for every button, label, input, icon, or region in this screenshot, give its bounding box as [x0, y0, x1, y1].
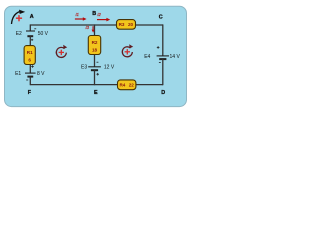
svg-text:R3: R3 [119, 22, 125, 27]
svg-text:E1: E1 [15, 71, 21, 77]
plus sign of E4 [157, 46, 160, 49]
svg-text:B: B [92, 11, 96, 17]
svg-text:E: E [94, 90, 98, 96]
plus sign of E1 [31, 65, 34, 68]
plus sign of E3 [96, 73, 99, 76]
resistor R4 [118, 80, 136, 90]
svg-text:22: 22 [129, 83, 135, 88]
svg-text:D: D [161, 90, 165, 96]
battery E1 [25, 73, 36, 77]
minus sign of E2 [34, 28, 36, 30]
wire E1 to F [29, 77, 31, 86]
svg-text:I1: I1 [76, 12, 79, 17]
svg-text:14 V: 14 V [170, 54, 181, 60]
battery E2 [26, 31, 35, 36]
current arrow I1 [75, 17, 87, 21]
svg-text:R2: R2 [92, 40, 98, 45]
svg-text:E3: E3 [81, 65, 87, 71]
reference rotation arrow top-left [12, 10, 26, 24]
current arrow I3 [92, 26, 95, 32]
wire left branch A to E2 [29, 24, 31, 31]
svg-text:E2: E2 [16, 31, 22, 37]
wire R1 to E1 [29, 65, 31, 73]
svg-text:E4: E4 [144, 54, 150, 60]
svg-text:6: 6 [28, 58, 31, 63]
resistor R1 [24, 46, 35, 65]
wire right branch C to E4 [162, 24, 164, 55]
svg-text:R4: R4 [119, 83, 125, 88]
wire middle branch B to R2 [94, 24, 96, 36]
svg-text:12 V: 12 V [104, 65, 115, 71]
svg-text:18: 18 [92, 47, 98, 52]
wire top A-B-C [30, 24, 163, 26]
loop direction symbol right loop [122, 44, 133, 57]
minus sign of E4 [159, 61, 161, 63]
battery E3 [88, 67, 101, 70]
minus sign of E3 [97, 61, 99, 63]
loop direction symbol left loop [56, 45, 67, 58]
svg-text:C: C [159, 14, 163, 20]
resistor R2 [88, 36, 100, 55]
svg-text:20: 20 [128, 22, 134, 27]
minus sign of E1 [26, 79, 28, 81]
wire bottom F-E-D [30, 84, 163, 86]
resistor R3 [117, 20, 136, 30]
reference polarity plus top-left [16, 15, 22, 21]
svg-text:A: A [30, 14, 34, 20]
svg-text:R1: R1 [27, 50, 33, 55]
plus sign of E2 [31, 39, 33, 41]
current arrow I2 [97, 18, 110, 22]
battery E4 [157, 56, 169, 59]
svg-text:8 V: 8 V [37, 71, 45, 77]
wire E3 to E [94, 70, 96, 85]
wire E2 to R1 [29, 36, 31, 46]
wire E4 to D [162, 59, 164, 85]
svg-text:50 V: 50 V [38, 31, 49, 37]
card background [5, 6, 187, 106]
wire R2 to E3 [94, 55, 96, 67]
